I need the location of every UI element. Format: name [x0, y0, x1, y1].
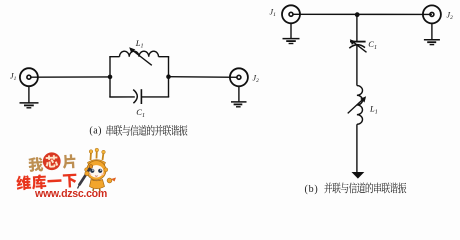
inductor L1b (4 humps, bulge left) — [357, 86, 363, 125]
capacitor C1b: curved plate — [349, 45, 365, 49]
bottom wire to capacitor — [109, 96, 169, 98]
svg-text:(b): (b) — [305, 184, 319, 195]
wire J1 to loop — [31, 76, 110, 78]
connector J2 — [230, 68, 248, 86]
logo red seal circle — [42, 152, 61, 171]
stem to capacitor — [356, 15, 358, 42]
mascot right hand — [107, 178, 112, 183]
ground under J2b — [424, 23, 440, 44]
wire loop to J2 — [169, 76, 239, 79]
parallel LC loop: left vertical wire — [109, 57, 111, 97]
connector J2b — [423, 5, 441, 23]
top wire J1b to J2b — [293, 13, 432, 15]
variable arrow through L1b — [348, 99, 364, 114]
capacitor C1b: straight plate — [350, 41, 366, 43]
svg-text:www.dzsc.com: www.dzsc.com — [34, 188, 107, 198]
mascot eyes — [90, 169, 94, 173]
variable arrow through L1 — [132, 50, 152, 66]
mascot head — [87, 161, 106, 180]
bottom arrow terminal — [352, 172, 365, 179]
variable arrow through C1b — [352, 41, 366, 52]
mascot left hand on pen — [85, 171, 89, 175]
ground under J2 — [231, 86, 247, 107]
junction node left — [108, 75, 113, 80]
watermark logo group — [15, 151, 77, 190]
logo char 我 — [28, 157, 43, 172]
logo char 片 — [62, 154, 76, 169]
capacitor C1: curved plate — [133, 90, 137, 104]
connector J1 — [20, 68, 38, 86]
loop right vertical wire — [168, 57, 170, 97]
ground under J1b — [283, 23, 300, 43]
watermark big text 维库一下 — [16, 175, 31, 190]
mascot pen — [80, 168, 91, 185]
stem inductor to arrow — [356, 124, 358, 172]
top wire segments to inductor — [109, 56, 169, 58]
mascot crown — [91, 151, 104, 161]
stem capacitor to inductor — [356, 45, 358, 86]
junction node top — [355, 12, 360, 17]
inductor L1 (4 humps) — [120, 51, 159, 57]
capacitor C1: straight plate — [140, 89, 142, 104]
junction node right — [166, 74, 171, 79]
ground under J1 — [20, 86, 39, 108]
svg-text:(a): (a) — [89, 126, 102, 137]
connector J1b — [282, 5, 300, 23]
mascot body — [90, 180, 105, 189]
